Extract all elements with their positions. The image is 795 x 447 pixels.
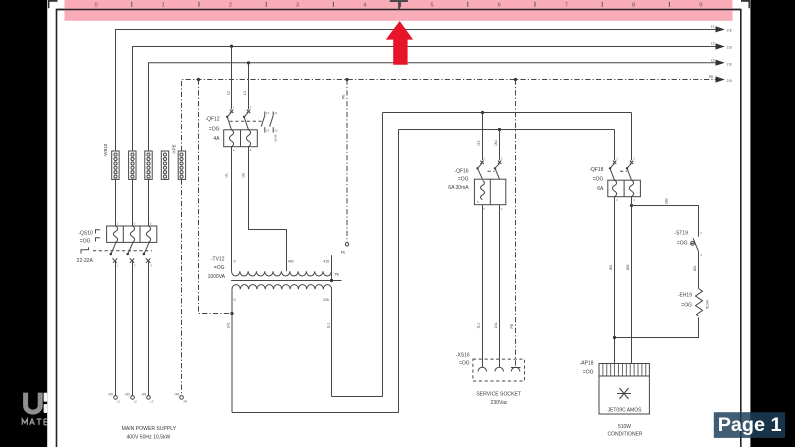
svg-text:1: 1 (162, 3, 165, 9)
terminal strip spare (161, 151, 168, 179)
svg-text:JET09C AMOS: JET09C AMOS (608, 407, 643, 413)
page number badge (714, 412, 785, 438)
label ST19 (674, 230, 688, 246)
right black bar (750, 0, 795, 447)
svg-text:-TV12: -TV12 (211, 256, 225, 262)
label WB10 (103, 143, 108, 157)
thermostat ST19 (691, 231, 703, 257)
label TV12 (208, 256, 226, 280)
aux contact 13-14 (261, 111, 269, 133)
arrow PE to 2.8 (709, 75, 732, 83)
svg-text:0: 0 (234, 298, 236, 302)
wire PE stub (dash-dot) (342, 80, 347, 243)
QF12 pin 4 (250, 148, 252, 152)
svg-text:1N1: 1N1 (494, 140, 498, 146)
svg-text:-X0: -X0 (107, 392, 112, 396)
svg-text:=OG: =OG (677, 240, 688, 246)
node N tap QF16 (498, 128, 501, 131)
wire L2 bus (133, 47, 717, 152)
left black bar (0, 0, 47, 447)
svg-text:1B2: 1B2 (665, 198, 669, 204)
svg-text:-X0: -X0 (174, 392, 179, 396)
wire PE bond to N (dash-dot) (199, 80, 233, 314)
svg-text:-ST19: -ST19 (674, 230, 688, 236)
svg-text:6A 30mA: 6A 30mA (448, 185, 469, 191)
svg-text:400: 400 (288, 260, 294, 264)
wire L to QF18 (631, 113, 633, 161)
svg-text:13: 13 (266, 111, 269, 115)
QS10 contact pole 3 (143, 242, 151, 262)
QF16 pin 2 (483, 207, 485, 211)
svg-text:-WB10: -WB10 (103, 143, 108, 157)
svg-text:PE: PE (341, 250, 346, 254)
svg-text:230Vac: 230Vac (491, 400, 508, 406)
wire L1 strip to QS10 (115, 179, 117, 226)
socket XS16 (473, 359, 525, 381)
svg-text:-X0: -X0 (124, 392, 129, 396)
wire L bottom run (332, 396, 383, 398)
svg-text:L2: L2 (711, 41, 715, 45)
svg-text:1N1: 1N1 (227, 322, 231, 328)
wire L1 QS10 to X0 (116, 262, 120, 396)
wire QF16 to socket N (494, 205, 499, 368)
conditioner AP18 (599, 364, 649, 415)
wire N bus 230V (399, 129, 615, 131)
svg-text:=OG: =OG (80, 239, 91, 245)
wire EH19 return (615, 317, 699, 337)
svg-text:1L1: 1L1 (477, 140, 481, 146)
caption conditioner (608, 424, 643, 438)
corner mark top-right (741, 0, 749, 8)
svg-text:21: 21 (274, 111, 277, 115)
svg-text:-QS10: -QS10 (78, 230, 93, 236)
svg-text:1L1: 1L1 (327, 323, 331, 329)
QF12 pin 1 (233, 106, 235, 110)
svg-text:Page 1: Page 1 (718, 414, 782, 436)
caption main power supply (122, 426, 177, 441)
TV12 core line (231, 280, 341, 282)
terminal strip WB10-1 (112, 151, 119, 179)
svg-text:400V 50Hz 10,5kW: 400V 50Hz 10,5kW (126, 435, 170, 441)
wire N to QF16 (494, 130, 499, 161)
svg-text:2.8: 2.8 (727, 45, 732, 49)
corner mark top-left (48, 0, 58, 8)
wire L3 bus (149, 63, 717, 151)
logo MATE text (22, 419, 47, 425)
node L3 tap (247, 61, 250, 64)
svg-text:95-96: 95-96 (274, 134, 278, 141)
node N-PE bond (230, 312, 233, 315)
QF16 pin 1 (483, 156, 485, 160)
terminal X0 PE (174, 392, 187, 403)
svg-text:14: 14 (266, 129, 269, 133)
svg-text:L3: L3 (150, 400, 153, 404)
wire L1 bus (116, 30, 717, 152)
terminal PE stub (341, 243, 349, 255)
svg-text:-QF18: -QF18 (589, 167, 603, 173)
wire L to QF16 (477, 113, 483, 161)
QF18 pin 2 (616, 198, 618, 202)
QS10 pin 3 (134, 222, 136, 226)
page top border over band (57, 9, 741, 11)
rcbo QF16 (474, 161, 505, 205)
svg-text:=OG: =OG (214, 265, 225, 271)
QF18 pin 3 (633, 156, 635, 160)
svg-text:1B1: 1B1 (609, 264, 613, 270)
svg-text:1B2: 1B2 (626, 264, 630, 270)
svg-text:-XS16: -XS16 (456, 352, 470, 358)
node PE tap socket (514, 78, 517, 81)
red annotation arrow (386, 21, 413, 65)
QF16 pin 3 (501, 156, 503, 160)
svg-text:510W: 510W (618, 424, 631, 430)
ruler numbers (94, 3, 702, 9)
label QS10 (77, 230, 94, 263)
node PE tap for bonding (197, 78, 200, 81)
wire QF18 L to AP18 (626, 197, 631, 364)
svg-text:4A: 4A (213, 136, 220, 142)
ruler cursor marker (390, 0, 408, 10)
svg-text:2: 2 (229, 3, 232, 9)
label QF16 (448, 169, 469, 191)
wire L2 QS10 to X0 (133, 262, 136, 396)
node PE stub tap (345, 78, 348, 81)
svg-text:-QF12: -QF12 (205, 117, 219, 123)
node L2 tap (230, 45, 233, 48)
svg-text:-AP18: -AP18 (580, 361, 594, 367)
terminal strip XPE (178, 151, 185, 179)
label QF12 (205, 117, 220, 142)
label XPE (171, 144, 176, 154)
arrow L2 to 2.8 (711, 41, 732, 49)
svg-text:PE: PE (510, 323, 514, 328)
wire PE strip to X0 (dash-dot) (181, 179, 183, 395)
wire branch to ST19 (632, 198, 699, 237)
wire N bottom run (232, 412, 399, 414)
svg-text:1000VA: 1000VA (208, 274, 226, 280)
QS10 linkage (dashed) (93, 250, 152, 252)
transformer TV12 primary winding (232, 271, 332, 276)
caption service socket (476, 392, 521, 406)
wire L3 strip to QS10 (148, 179, 150, 226)
svg-text:510W: 510W (705, 299, 709, 309)
terminal X0 L3 (141, 392, 154, 403)
terminal strip WB10-3 (145, 151, 152, 179)
QF12 pin 3 (250, 106, 252, 110)
svg-text:=OG: =OG (458, 177, 469, 183)
svg-text:1N1: 1N1 (494, 322, 498, 328)
svg-text:2.8: 2.8 (727, 79, 732, 83)
svg-text:U1: U1 (225, 173, 229, 177)
QF12 pin 2 (233, 148, 235, 152)
svg-text:L1: L1 (711, 25, 715, 29)
wire PE to socket (dash-dot) (510, 80, 515, 368)
QF18 pin 1 (616, 156, 618, 160)
svg-text:CONDITIONER: CONDITIONER (608, 432, 643, 438)
svg-text:=OG: =OG (593, 176, 604, 182)
ruler ticks (132, 2, 670, 7)
svg-text:1L1: 1L1 (477, 323, 481, 329)
wire PE bus (dash-dot) (182, 80, 717, 152)
label QF18 (589, 167, 604, 192)
wire L3 QS10 to X0 (149, 262, 153, 396)
svg-text:9: 9 (699, 3, 702, 9)
svg-text:PE: PE (709, 75, 714, 79)
QS10 pin 1 (117, 222, 119, 226)
wire N riser (398, 130, 400, 413)
svg-text:=OG: =OG (681, 302, 692, 308)
svg-text:22: 22 (274, 129, 277, 133)
wire L2 to QF12 (227, 47, 232, 110)
QF16 pin 4 (501, 207, 503, 211)
wire QF18 N to AP18 (609, 197, 614, 364)
svg-text:22-32A: 22-32A (77, 258, 94, 264)
arrow L3 to 2.8 (711, 58, 732, 66)
svg-text:U3: U3 (242, 173, 246, 177)
svg-text:415: 415 (323, 260, 329, 264)
logo U (26, 393, 41, 412)
svg-text:L2: L2 (227, 91, 231, 95)
transformer TV12 secondary winding (232, 285, 332, 290)
svg-text:-XPE: -XPE (171, 144, 176, 154)
terminal X0 L1 (107, 392, 120, 403)
TV12 PE stub and node (330, 271, 340, 282)
svg-text:=OG: =OG (459, 360, 470, 366)
label XS16 (456, 352, 470, 366)
svg-text:=OG: =OG (209, 126, 220, 132)
aux contact 21-22 (270, 111, 278, 133)
svg-text:230: 230 (323, 298, 329, 302)
svg-text:SERVICE SOCKET: SERVICE SOCKET (476, 392, 521, 398)
svg-text:1B1: 1B1 (693, 265, 697, 271)
svg-text:2.8: 2.8 (727, 62, 732, 66)
svg-text:L3: L3 (243, 91, 247, 95)
switch fuse QS10 (107, 226, 157, 242)
svg-text:L1: L1 (117, 400, 120, 404)
svg-text:6A: 6A (597, 186, 604, 192)
TV12 terminal labels (234, 260, 329, 264)
wire L riser (382, 113, 384, 397)
svg-text:6: 6 (498, 3, 501, 9)
node L tap QF16 (481, 111, 484, 114)
terminal strip WB10-2 (129, 151, 136, 179)
wire L from secondary 230 down (327, 289, 332, 396)
svg-text:L2: L2 (134, 400, 137, 404)
wire L bus 230V (383, 112, 632, 114)
svg-text:-EH19: -EH19 (678, 292, 692, 298)
wire ST19 to EH19 (693, 251, 698, 288)
svg-text:7: 7 (565, 3, 568, 9)
QS10 pin 5 (150, 222, 152, 226)
wire QF12 to TV12 primary 0 (225, 147, 232, 272)
svg-text:-X0: -X0 (141, 392, 146, 396)
label EH19 (678, 292, 692, 308)
svg-text:2.8: 2.8 (727, 29, 732, 33)
terminal X0 L2 (124, 392, 137, 403)
svg-text:PE: PE (184, 400, 188, 404)
QS10 contact pole 2 (126, 242, 134, 262)
wire N to QF18 (614, 130, 616, 161)
svg-text:8: 8 (632, 3, 635, 9)
aux contact label (274, 134, 278, 141)
svg-text:PE: PE (342, 94, 346, 99)
svg-text:MAIN POWER SUPPLY: MAIN POWER SUPPLY (122, 426, 177, 432)
breaker QF12 (224, 110, 263, 147)
heater EH19 (resistor) (696, 289, 710, 316)
svg-text:4: 4 (363, 3, 366, 9)
TV12 tap 415 stub (331, 255, 333, 271)
QS10 handle (81, 230, 100, 254)
svg-text:0: 0 (94, 3, 97, 9)
node heater return (613, 336, 616, 339)
svg-text:0: 0 (234, 260, 236, 264)
svg-text:3: 3 (296, 3, 299, 9)
svg-text:L3: L3 (711, 58, 715, 62)
label AP18 (580, 361, 594, 376)
QF18 pin 4 (633, 198, 635, 202)
breaker QF18 (608, 161, 641, 197)
logo partial letter (44, 393, 48, 413)
svg-text:5: 5 (430, 3, 433, 9)
arrow L1 to 2.8 (711, 25, 732, 33)
QS10 contact pole 1 (110, 242, 118, 262)
svg-text:=OG: =OG (583, 370, 594, 376)
wire QF12 to TV12 primary 400 (242, 147, 287, 272)
svg-text:N: N (477, 200, 479, 204)
wire L2 strip to QS10 (132, 179, 134, 226)
node L branch (630, 204, 633, 207)
ruler highlight band (65, 0, 733, 21)
wire QF16 to socket L (477, 205, 483, 368)
svg-text:-QF16: -QF16 (454, 169, 468, 175)
wire N from secondary 0 down (227, 289, 232, 412)
TV12 secondary labels (234, 298, 329, 302)
svg-text:PE: PE (335, 273, 340, 277)
wire L3 to QF12 (243, 63, 248, 109)
